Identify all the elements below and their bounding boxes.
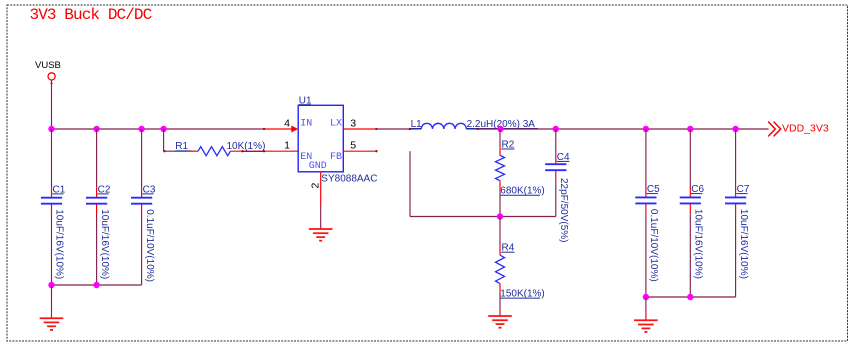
wire C7 bottom [735,214,737,297]
junction [732,126,738,132]
wire rail to C4 [555,129,557,154]
ground [488,316,512,328]
svg-text:10uF/16V(10%): 10uF/16V(10%) [693,209,704,279]
capacitor C5 [635,184,660,282]
wire input rail [52,128,265,130]
svg-text:10K(1%): 10K(1%) [227,141,266,152]
junction [687,294,693,300]
wire C3 top [141,129,143,187]
junction [138,126,144,132]
pin 3 LX [330,117,378,130]
wire ground stem [645,297,647,313]
svg-text:GND: GND [309,161,327,172]
wire C2 top [96,129,98,187]
svg-text:0.1uF/10V(10%): 0.1uF/10V(10%) [648,209,659,282]
capacitor C7 [725,184,750,279]
ground [309,229,333,241]
op-amp U1 SY8088AAC [298,95,377,184]
wire left ground rail [52,284,142,286]
svg-text:3: 3 [350,117,356,129]
power port VDD_3V3 [768,122,829,137]
wire output rail [478,128,769,130]
svg-text:0.1uF/10V(10%): 0.1uF/10V(10%) [144,209,155,282]
junction [93,126,99,132]
junction [497,213,503,219]
junction [687,126,693,132]
capacitor C3 [131,185,156,283]
resistor R4 [496,243,545,300]
svg-text:2: 2 [309,183,321,189]
power port VUSB [35,60,61,85]
junction [160,126,166,132]
junction [48,282,54,288]
svg-text:10uF/16V(10%): 10uF/16V(10%) [54,209,65,279]
wire U1 gnd [320,206,322,229]
pin 4 IN [263,117,312,132]
wire C3 bottom [141,214,143,285]
wire FB node horizontal [410,216,556,218]
wire right ground rail [646,296,736,298]
svg-text:SY8088AAC: SY8088AAC [321,174,377,185]
svg-text:IN: IN [300,119,312,130]
wire rail to R2 [499,129,501,145]
capacitor C2 [86,185,111,280]
pin 5 FB [330,140,378,163]
resistor R1 [163,141,298,156]
wire FB vertical [409,151,411,216]
svg-text:FB: FB [330,152,342,163]
capacitor C6 [680,184,705,279]
wire R4 to ground [499,294,501,309]
svg-text:10uF/16V(10%): 10uF/16V(10%) [738,209,749,279]
wire C5 bottom [645,214,647,297]
wire C4 to node [555,181,557,217]
svg-text:10uF/16V(10%): 10uF/16V(10%) [99,209,110,279]
resistor R2 [496,139,545,196]
wire C7 top [735,129,737,187]
svg-text:VDD_3V3: VDD_3V3 [782,123,829,135]
junction [643,126,649,132]
wire R2 to node [499,191,501,217]
pin 1 EN [284,140,312,163]
pin 2 GND [309,161,327,206]
svg-text:5: 5 [350,140,356,152]
svg-text:VUSB: VUSB [35,60,61,71]
junction [643,294,649,300]
capacitor C4 [545,152,570,243]
junction [497,126,503,132]
wire C1 bottom [51,214,53,285]
wire C5 top [645,129,647,187]
wire C1 top [51,129,53,187]
junction [553,126,559,132]
wire rail to R1 [163,129,165,151]
wire LX to L1 [376,128,410,130]
wire C6 top [689,129,691,187]
inductor L1 [409,119,538,130]
wire ground stem [51,285,53,311]
svg-text:3V3 Buck DC/DC: 3V3 Buck DC/DC [30,6,152,24]
svg-text:4: 4 [284,117,290,129]
svg-text:1: 1 [284,140,290,152]
junction [48,126,54,132]
ground [40,318,64,330]
ground [634,320,658,332]
wire C2 bottom [96,214,98,285]
wire node to R4 [499,217,501,246]
wire C6 bottom [689,214,691,297]
junction [93,282,99,288]
svg-text:LX: LX [330,119,342,130]
svg-text:22pF/50V(5%): 22pF/50V(5%) [558,178,569,242]
wire VUSB to rail [51,80,53,129]
capacitor C1 [41,185,66,280]
